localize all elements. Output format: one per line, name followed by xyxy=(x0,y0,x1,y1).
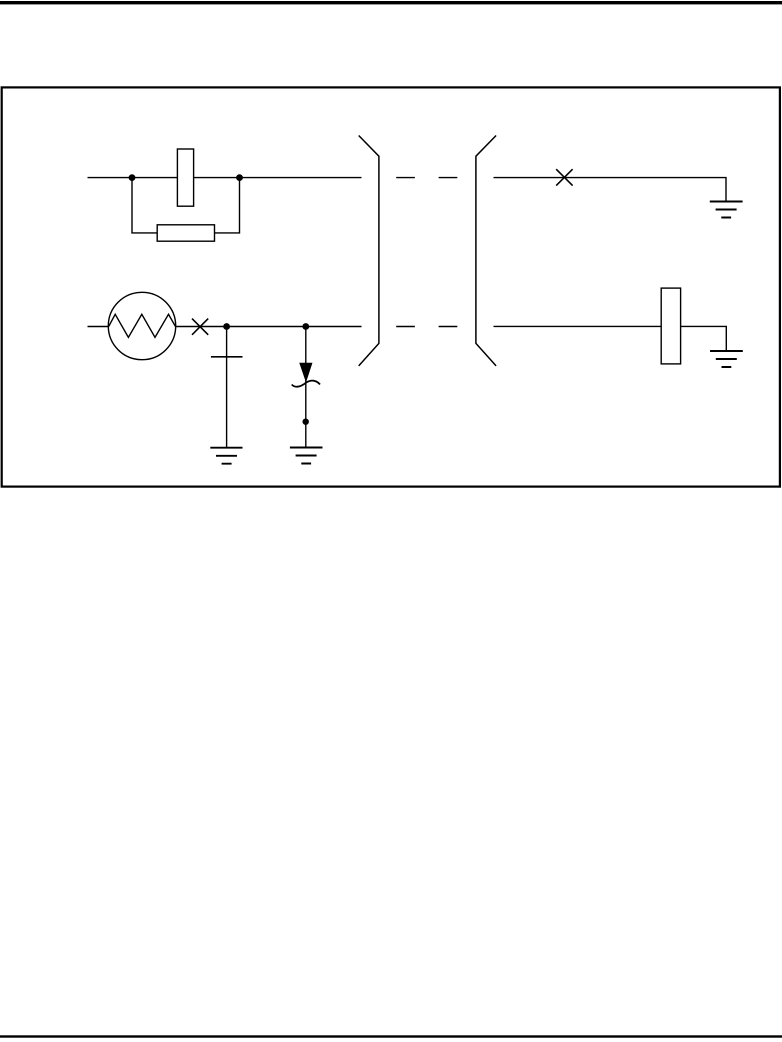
splice X bottom xyxy=(192,319,208,335)
wire top middle xyxy=(194,177,362,179)
fuse F1 xyxy=(177,149,193,206)
connector P1 left half xyxy=(359,136,379,366)
splice X top xyxy=(556,169,572,185)
fuse F2 xyxy=(661,288,680,364)
ground bottom right xyxy=(710,351,743,367)
connector J1 right half xyxy=(476,136,496,366)
node junction right xyxy=(236,174,243,181)
sensor element RT1 xyxy=(108,292,175,359)
wire dashed interconnect top xyxy=(396,177,457,179)
resistor R1 xyxy=(157,225,214,241)
capacitor C1 xyxy=(211,327,243,448)
wire bottom middle xyxy=(175,326,361,328)
wire top lead-in xyxy=(88,177,178,179)
ground top right xyxy=(710,202,743,218)
node junction capacitor xyxy=(223,323,230,330)
wire bottom right xyxy=(494,325,662,327)
suppressor CR1 xyxy=(292,327,320,448)
node suppressor lower xyxy=(303,419,309,425)
node junction suppressor xyxy=(302,323,309,330)
wire bottom lead-in xyxy=(88,326,109,328)
wire parallel branch right xyxy=(215,178,240,233)
wire parallel branch left xyxy=(132,178,157,233)
wire to ground bottom right xyxy=(681,326,727,351)
node junction left xyxy=(129,174,136,181)
ground capacitor xyxy=(210,448,242,464)
ground suppressor xyxy=(290,448,323,464)
wire top right xyxy=(494,178,727,202)
wire dashed interconnect bottom xyxy=(396,326,457,328)
